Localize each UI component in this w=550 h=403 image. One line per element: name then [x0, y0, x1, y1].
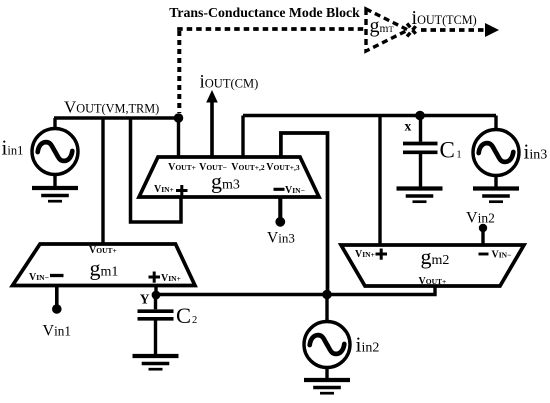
svg-text:VIN−: VIN− [29, 272, 49, 283]
wire: dashed TCM vertical from vOUT node [177, 31, 181, 113]
wire: gm3 vOUT+,2 up to node x bus [241, 116, 244, 158]
wire: gm1 vIN+ down to Y [154, 285, 157, 296]
current source Iin2 [304, 295, 350, 379]
capacitor C2 [138, 295, 174, 355]
gm3 minus sign [274, 188, 285, 191]
node dot vin2 [479, 224, 487, 232]
ground: Iin1 [32, 188, 78, 201]
wire: dashed TCM output arrow [421, 28, 486, 32]
node dot x [415, 111, 425, 121]
svg-text:VOUT+: VOUT+ [168, 162, 196, 173]
svg-text:x: x [405, 119, 412, 134]
gm2 plus sign [376, 249, 388, 260]
svg-text:Vin1: Vin1 [43, 323, 71, 340]
node dot vin3 [275, 217, 285, 227]
wire: vOUT bus to gm3 vIN+ (U path) [131, 118, 182, 222]
svg-text:Trans-Conductance Mode Block: Trans-Conductance Mode Block [169, 5, 360, 20]
node dot: iin2 / gm2 output junction [322, 290, 332, 300]
label gm3 pins [154, 162, 305, 196]
wire: dashed TCM horizontal input [177, 27, 366, 31]
capacitor C1 [403, 116, 438, 188]
node dot vin1 [52, 304, 62, 314]
svg-text:VOUT+: VOUT+ [89, 245, 117, 256]
wire: vin2 to gm2 vIN- [481, 229, 484, 246]
wire: gm3 vOUT+,3 to iin2 node [281, 133, 328, 293]
svg-text:VIN−: VIN− [492, 250, 512, 261]
svg-text:Vin3: Vin3 [267, 230, 295, 247]
wire: gm3 vIN- down to vin3 [278, 197, 282, 218]
op-amp gmT (dashed triangle) [366, 9, 408, 51]
wire: gm1 vIN- down to vin1 [55, 285, 59, 306]
svg-text:VOUT+,3: VOUT+,3 [266, 162, 300, 173]
svg-text:Vin2: Vin2 [466, 210, 495, 227]
gm1 minus sign [50, 274, 64, 277]
wire: gm2 vIN+ up to node x bus [378, 116, 381, 246]
ground: Iin2 [304, 380, 350, 393]
arrow iOUT(CM) from gm3 vOUT- [210, 101, 214, 157]
svg-text:VIN−: VIN− [285, 185, 305, 196]
ground: C2 [133, 356, 179, 369]
gm1 plus sign [149, 272, 161, 283]
node dot Y [152, 291, 161, 300]
svg-text:VIN+: VIN+ [355, 249, 375, 260]
label gm2 pins [355, 249, 511, 287]
wire: gm2 vOUT+ to Y node [156, 286, 435, 295]
node: X crossing mark at gmT output [407, 24, 418, 37]
current source Iin1 [32, 118, 78, 187]
svg-text:VOUT+: VOUT+ [419, 276, 447, 287]
ground: Iin3 [473, 189, 519, 202]
gm2 minus sign [479, 253, 489, 256]
ground: C1 [397, 189, 443, 202]
label gm1 pins [29, 245, 181, 284]
wire: node x bus [243, 114, 496, 117]
svg-text:VIN+: VIN+ [154, 184, 174, 195]
op-amp gm3 (trapezoid) [139, 157, 319, 197]
current source Iin3 [473, 116, 519, 188]
node dot: vOUT / TCM tap [174, 113, 184, 123]
op-amp gm1 (trapezoid) [13, 244, 196, 286]
svg-text:VIN+: VIN+ [161, 273, 181, 284]
wire: vOUT bus [54, 116, 180, 119]
gm3 plus sign [176, 185, 188, 196]
svg-text:Y: Y [140, 292, 150, 307]
wire: vOUT bus to gm1 vOUT+ [101, 118, 104, 245]
svg-text:VOUT+,2: VOUT+,2 [231, 162, 265, 173]
op-amp gm2 (trapezoid) [341, 245, 524, 286]
wire: vOUT node dot down to gm3 vOUT+ pin [177, 118, 180, 157]
